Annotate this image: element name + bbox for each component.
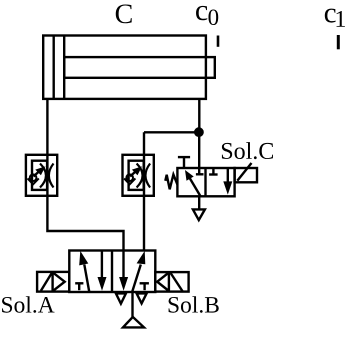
5/2 right square blocked port T	[140, 283, 149, 290]
wire: FC2 column down to 5/2 valve port	[143, 132, 145, 250]
label C	[116, 4, 132, 23]
junction dot	[195, 129, 202, 136]
FC2 flow arrow	[130, 166, 142, 176]
Sol.A divider	[51, 272, 53, 292]
Sol.C blocked port T1 (above left square)	[178, 157, 190, 168]
Sol.C blocked port T2 (inside right square)	[209, 168, 218, 174]
sensor tick c0	[217, 36, 220, 47]
FC2 ball seat V	[124, 178, 135, 184]
FC2 check ball	[126, 174, 133, 181]
flow control valve FC2	[123, 155, 154, 196]
sensor tick c1	[337, 35, 340, 49]
cylinder C barrel	[43, 36, 206, 99]
Sol.C left square flow arrow	[185, 170, 201, 196]
Sol.B base line	[168, 272, 170, 292]
solenoid actuator Sol.A box	[37, 272, 69, 292]
Sol.C inlet port bar	[196, 173, 204, 175]
Sol.C return spring	[165, 175, 177, 190]
5/2 exhaust vent left	[116, 293, 126, 303]
cylinder piston (double line)	[54, 36, 64, 99]
supply line	[131, 292, 133, 317]
FC1 inner box	[32, 161, 47, 190]
Sol.C solenoid box	[235, 163, 257, 182]
Sol.C exhaust wire	[198, 196, 200, 209]
FC1 check ball	[30, 174, 37, 181]
5/2 left square up arrow	[79, 251, 89, 292]
flow control valve FC1	[26, 155, 57, 196]
wire: cylinder left port down through FC1 to 5/2 valve port	[47, 99, 123, 251]
label Sol.B	[169, 296, 219, 313]
Sol.A pilot triangle	[53, 272, 65, 291]
FC1 ball seat V	[28, 178, 39, 184]
wire: junction down into Sol.C valve	[198, 132, 200, 174]
5/2 right square up arrow	[132, 251, 145, 292]
FC2 outer box	[123, 155, 154, 196]
cylinder piston rod	[64, 57, 215, 78]
supply source triangle	[123, 317, 144, 328]
Sol.C solenoid diagonal	[237, 163, 251, 181]
5/2 valve body	[69, 251, 155, 293]
Sol.A solenoid diagonal	[41, 273, 52, 291]
wire: cylinder right port down to junction	[198, 99, 200, 132]
FC2 inner box	[129, 161, 144, 190]
FC1 flow arrow	[34, 166, 46, 176]
label c1	[325, 9, 345, 27]
Sol.C exhaust triangle	[193, 209, 205, 220]
label Sol.A	[2, 296, 54, 313]
solenoid actuator Sol.B box	[155, 272, 188, 292]
5/2 left square down arrow	[98, 251, 107, 291]
5/2 right square down arrow	[119, 251, 128, 291]
FC1 outer box	[26, 155, 57, 196]
Sol.C right square down arrow	[223, 168, 232, 195]
FC2 throttle arcs	[137, 164, 151, 188]
Sol.B solenoid diagonal	[171, 273, 183, 292]
valve Sol.C 3/2 body	[177, 168, 234, 196]
5/2 exhaust vent right	[137, 293, 147, 303]
label c0	[196, 6, 218, 25]
label Sol.C	[222, 142, 273, 159]
FC1 throttle arcs	[40, 164, 54, 188]
Sol.C body divider	[204, 168, 206, 196]
wire: junction left to FC2 column	[144, 131, 199, 133]
5/2 valve middle double divider	[111, 251, 113, 293]
5/2 left square blocked port T	[75, 283, 83, 290]
Sol.B pilot triangle	[157, 273, 169, 292]
